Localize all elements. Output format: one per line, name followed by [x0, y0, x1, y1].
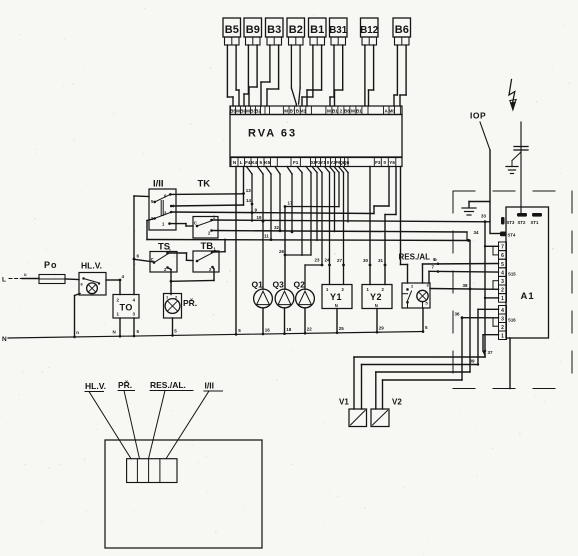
svg-text:B5: B5 [225, 24, 239, 36]
svg-text:14: 14 [246, 198, 252, 203]
svg-text:25: 25 [339, 326, 345, 331]
svg-text:2: 2 [501, 325, 504, 331]
svg-text:23: 23 [315, 258, 321, 263]
svg-text:B6: B6 [395, 24, 409, 36]
svg-text:C: C [194, 221, 197, 226]
svg-text:ST4: ST4 [508, 233, 516, 238]
svg-text:Y6: Y6 [389, 160, 395, 165]
svg-text:ST2: ST2 [518, 220, 526, 225]
svg-text:I/II: I/II [153, 179, 164, 190]
svg-text:4: 4 [501, 270, 504, 276]
svg-text:0: 0 [384, 160, 387, 165]
svg-text:19: 19 [257, 215, 263, 220]
svg-text:Q2: Q2 [294, 280, 306, 290]
svg-text:F4: F4 [245, 160, 251, 165]
svg-text:B3: B3 [267, 24, 281, 36]
svg-text:30: 30 [363, 258, 369, 263]
svg-text:1: 1 [501, 296, 504, 302]
svg-text:33: 33 [481, 214, 487, 219]
svg-text:5: 5 [260, 160, 263, 165]
svg-text:HL.V.: HL.V. [85, 381, 106, 391]
svg-text:B2: B2 [289, 24, 303, 36]
svg-text:N: N [113, 330, 116, 335]
svg-text:6: 6 [501, 253, 504, 259]
svg-text:37: 37 [488, 350, 494, 355]
svg-text:11: 11 [264, 234, 269, 239]
svg-text:3: 3 [501, 279, 504, 285]
svg-text:B1: B1 [310, 24, 324, 36]
svg-text:V1: V1 [339, 398, 349, 407]
svg-text:M: M [351, 109, 355, 114]
svg-text:B12: B12 [360, 25, 379, 36]
svg-text:N: N [335, 303, 338, 308]
svg-text:F3: F3 [375, 160, 381, 165]
svg-text:L: L [2, 277, 6, 284]
svg-text:13: 13 [246, 188, 252, 193]
svg-text:M: M [327, 109, 331, 114]
svg-text:B31: B31 [329, 25, 348, 36]
svg-text:B2: B2 [255, 109, 261, 114]
svg-text:M0: M0 [389, 109, 396, 114]
svg-text:TB: TB [201, 241, 214, 252]
svg-text:2: 2 [501, 288, 504, 294]
svg-text:C: C [151, 257, 154, 262]
svg-text:17: 17 [288, 201, 294, 206]
svg-text:PŘ.: PŘ. [183, 297, 197, 308]
svg-text:K4: K4 [251, 160, 257, 165]
svg-text:V2: V2 [392, 398, 402, 407]
svg-text:HL.V.: HL.V. [81, 261, 102, 271]
svg-text:B': B' [290, 109, 294, 114]
svg-text:S16: S16 [508, 318, 516, 323]
svg-text:2: 2 [340, 109, 343, 114]
svg-text:TO: TO [120, 303, 133, 313]
svg-text:38: 38 [463, 283, 469, 288]
svg-text:Q1: Q1 [252, 280, 264, 290]
svg-text:22: 22 [307, 327, 313, 332]
svg-text:K5: K5 [264, 160, 270, 165]
svg-text:B8: B8 [344, 109, 350, 114]
svg-text:Y1: Y1 [320, 160, 326, 165]
svg-text:B1: B1 [356, 109, 362, 114]
svg-text:B9: B9 [246, 24, 260, 36]
svg-text:7: 7 [501, 245, 504, 251]
svg-text:A1: A1 [521, 291, 535, 302]
svg-text:18: 18 [286, 327, 292, 332]
svg-text:34: 34 [474, 230, 480, 235]
svg-text:4: 4 [501, 308, 504, 314]
svg-text:I/II: I/II [205, 381, 214, 391]
svg-text:36: 36 [455, 312, 461, 317]
svg-text:ST1: ST1 [531, 220, 539, 225]
svg-text:M1: M1 [300, 109, 307, 114]
svg-text:N: N [375, 303, 378, 308]
svg-text:5: 5 [501, 262, 504, 268]
svg-text:1: 1 [501, 334, 504, 340]
svg-text:F1: F1 [293, 160, 299, 165]
svg-text:26: 26 [279, 249, 285, 254]
svg-text:Q6: Q6 [343, 160, 350, 165]
svg-text:RES./AL.: RES./AL. [150, 380, 186, 390]
svg-text:TK: TK [198, 179, 211, 190]
svg-text:PŘ.: PŘ. [118, 379, 132, 390]
svg-text:RVA 63: RVA 63 [248, 128, 297, 140]
svg-text:39: 39 [470, 359, 476, 364]
svg-text:B1: B1 [332, 109, 338, 114]
svg-text:24: 24 [325, 258, 331, 263]
svg-text:Q3: Q3 [273, 280, 285, 290]
svg-text:u: u [24, 272, 27, 277]
svg-text:Po: Po [44, 260, 58, 270]
svg-text:RES./AL: RES./AL [399, 253, 431, 262]
svg-text:Y2: Y2 [370, 292, 382, 302]
svg-text:N: N [2, 336, 7, 343]
svg-text:16: 16 [265, 328, 271, 333]
svg-text:M: M [284, 109, 288, 114]
svg-text:27: 27 [337, 258, 343, 263]
svg-text:S15: S15 [508, 272, 516, 277]
svg-text:31: 31 [378, 258, 384, 263]
svg-text:n: n [76, 330, 79, 335]
svg-text:32: 32 [274, 225, 280, 230]
svg-text:L: L [240, 160, 243, 165]
svg-text:IOP: IOP [470, 111, 486, 121]
svg-text:3: 3 [501, 317, 504, 323]
svg-text:Y1: Y1 [330, 292, 342, 302]
svg-text:ST3: ST3 [507, 220, 515, 225]
svg-text:29: 29 [379, 326, 385, 331]
